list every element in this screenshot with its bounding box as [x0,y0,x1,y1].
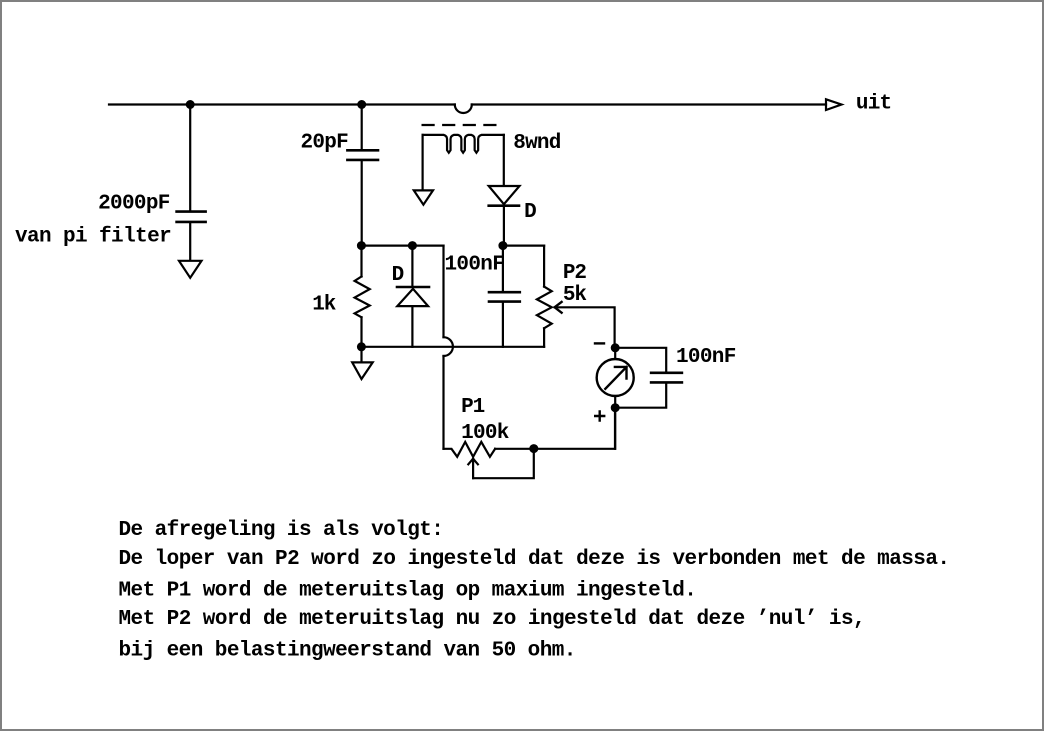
wire P1 to meter plus [495,408,615,449]
node junction meter minus [612,344,619,351]
meter M1 circle [597,359,634,396]
svg-text:van pi filter: van pi filter [15,226,172,249]
capacitor C4 100nF plates [651,373,682,383]
svg-text:20pF: 20pF [301,132,349,155]
node junction mid rail / D2 [409,242,416,249]
capacitor C4 100nF bottom wire [615,384,666,408]
capacitor C1 2000pF top lead [189,105,191,211]
node junction top rail / C1 [187,101,194,108]
svg-text:5k: 5k [563,284,587,307]
node junction bottom rail / R1 [358,343,365,350]
output arrowhead [826,99,842,110]
capacitor C2 20pF top lead [361,105,363,150]
wire vertical from mid rail to hop [442,246,444,338]
diode D2 bottom lead [411,306,413,347]
capacitor C1 2000pF bottom lead [189,223,191,260]
potentiometer P1 wiper wire [473,449,534,479]
meter M1 top lead [614,348,616,359]
ground below C1 [179,261,202,278]
diode D2 top lead [411,246,413,286]
svg-text:100k: 100k [461,422,509,445]
node junction mid rail / C2 [358,242,365,249]
potentiometer P2 zigzag [537,287,552,329]
svg-text:100nF: 100nF [676,346,736,369]
resistor R1 1k bottom lead [360,317,362,347]
ground stem below R1 [360,347,362,362]
transformer primary single-turn loop [455,105,472,114]
capacitor C3 100nF plates [489,292,520,301]
svg-text:100nF: 100nF [445,254,505,277]
potentiometer P2 wiper wire [555,307,615,348]
meter M1 needle [605,367,626,389]
ground below transformer secondary [414,190,433,204]
svg-text:1k: 1k [312,294,336,317]
potentiometer P2 wiper arrow [555,302,562,313]
node junction top rail / C2 [358,101,365,108]
diode D1 top lead [503,135,505,185]
svg-text:Met P2 word de meteruitslag nu: Met P2 word de meteruitslag nu zo ingest… [119,608,866,631]
diode D1 bottom lead [503,207,505,246]
node junction meter plus [612,404,619,411]
diode D1 triangle [489,186,520,204]
svg-text:P1: P1 [461,396,485,419]
svg-text:8wnd: 8wnd [513,132,561,155]
potentiometer P2 top lead [543,246,545,287]
meter M1 bottom lead [614,396,616,449]
wire bottom rail [361,346,544,348]
diode D1 cathode bar [489,204,519,207]
diode D2 cathode bar [397,286,429,289]
potentiometer P1 zigzag [444,442,496,457]
wire mid rail left segment [361,245,443,247]
capacitor C3 100nF bottom lead [502,303,504,347]
resistor R1 1k zigzag [355,277,370,318]
transformer secondary left lead [422,135,424,190]
svg-text:De loper van P2 word zo ingest: De loper van P2 word zo ingesteld dat de… [119,548,951,571]
svg-text:bij een belastingweerstand van: bij een belastingweerstand van 50 ohm. [119,640,577,663]
wire top rail right segment [472,103,826,105]
capacitor C3 100nF top lead [502,246,504,292]
node junction P1 wiper [530,445,537,452]
svg-text:Met P1 word de meteruitslag op: Met P1 word de meteruitslag op maxium in… [119,579,697,602]
diode D2 triangle [397,289,428,306]
svg-text:P2: P2 [563,262,587,285]
wire mid rail right segment [503,245,544,247]
transformer secondary winding coil 8wnd [423,135,504,153]
wire hop over bottom rail [444,337,453,356]
svg-text:D: D [392,264,405,287]
node junction mid rail / D1 C3 [500,242,507,249]
capacitor C1 2000pF plates [177,212,206,222]
wire vertical from hop to P1 [442,356,444,449]
capacitor C4 100nF top wire [615,348,666,372]
svg-text:2000pF: 2000pF [98,192,170,215]
potentiometer P1 wiper arrow [468,459,478,479]
svg-text:De afregeling is als volgt:: De afregeling is als volgt: [119,519,444,542]
capacitor C2 20pF plates [347,150,378,160]
transformer core dashed line [423,124,496,126]
capacitor C2 20pF bottom lead [361,161,363,245]
potentiometer P2 bottom lead [543,328,545,347]
meter minus sign [595,342,604,344]
svg-text:uit: uit [856,93,892,116]
svg-text:D: D [524,201,537,224]
wire top rail left segment [109,103,455,105]
resistor R1 1k top lead [360,246,362,277]
meter plus sign [595,412,604,421]
ground below R1 [352,362,373,379]
